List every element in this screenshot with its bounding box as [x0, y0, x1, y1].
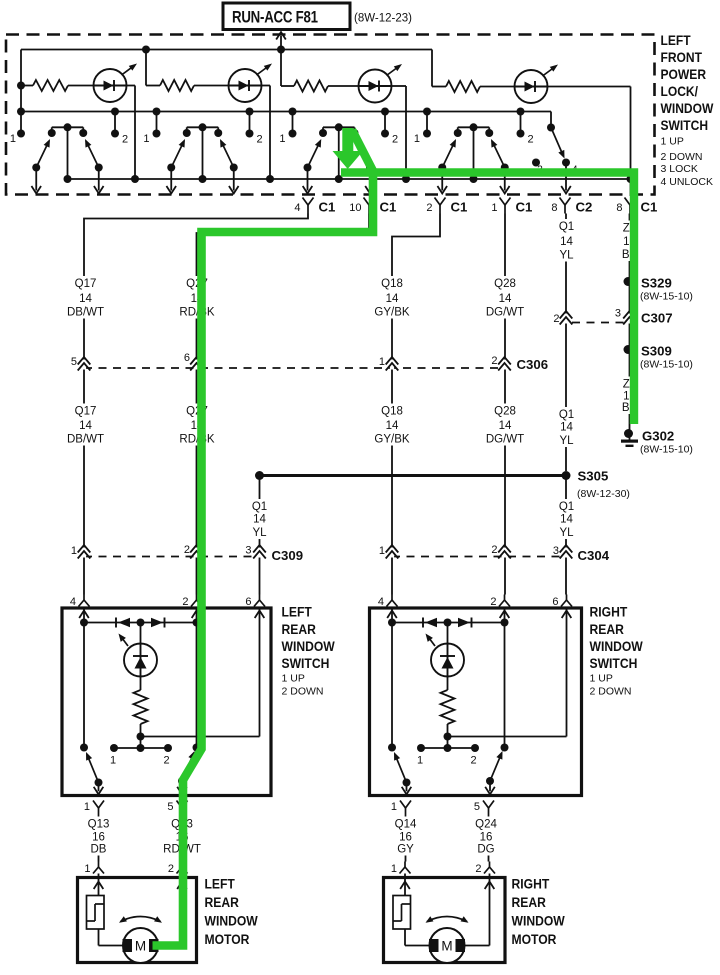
switch unit 4 left movable contact — [442, 141, 455, 168]
svg-text:2 DOWN: 2 DOWN — [282, 686, 324, 698]
label Z1 12 BK upper — [619, 221, 641, 262]
svg-text:WINDOW: WINDOW — [205, 913, 259, 929]
svg-text:WINDOW: WINDOW — [590, 638, 644, 654]
svg-text:4: 4 — [70, 596, 76, 608]
switch unit 2 right movable contact — [221, 141, 234, 168]
svg-text:2: 2 — [168, 863, 174, 875]
wire pin 6 to resistor — [259, 610, 261, 737]
motor pin 1 — [404, 862, 406, 868]
switch unit 3 contact bar — [323, 126, 355, 128]
right rear window motor box — [384, 878, 506, 963]
svg-text:6: 6 — [245, 596, 251, 608]
entry arrows — [391, 607, 393, 623]
motor pin 2 — [489, 862, 491, 868]
highlight path to left rear motor — [153, 130, 374, 946]
svg-text:C2: C2 — [576, 200, 593, 215]
svg-text:C309: C309 — [272, 548, 304, 563]
svg-text:LEFT: LEFT — [661, 32, 691, 48]
right rear window switch pin 2 — [504, 595, 506, 601]
wire Q17 from pin 4 C1 — [84, 214, 308, 595]
svg-text:2: 2 — [553, 313, 559, 325]
connector C309 pin 2 — [194, 548, 198, 558]
resistor illumination — [140, 677, 142, 691]
svg-text:14: 14 — [499, 420, 512, 432]
svg-text:(8W-12-23): (8W-12-23) — [354, 13, 412, 25]
svg-text:2: 2 — [528, 134, 534, 146]
wire Q1 from S305 left branch — [259, 476, 261, 595]
wire pin 6 to resistor — [566, 610, 568, 737]
svg-text:Q13: Q13 — [88, 819, 110, 831]
svg-text:SWITCH: SWITCH — [590, 655, 638, 671]
right rear window switch pin 6 — [566, 595, 568, 601]
pin 2 stub at x=385 — [384, 112, 386, 134]
svg-text:4 UNLOCK: 4 UNLOCK — [661, 176, 714, 188]
svg-text:RIGHT: RIGHT — [512, 876, 550, 892]
entry arrows — [83, 607, 85, 623]
svg-text:SWITCH: SWITCH — [282, 655, 330, 671]
right rear window switch pin 4 — [391, 595, 393, 601]
svg-text:RIGHT: RIGHT — [590, 604, 628, 620]
svg-text:C1: C1 — [516, 200, 533, 215]
lamp DS4 illumination — [515, 70, 548, 103]
svg-text:4: 4 — [294, 202, 300, 214]
connector C307 dashed line — [572, 322, 624, 324]
wire Q1 from pin 8 C2 — [565, 214, 567, 472]
label Q1 14 YL right branch — [554, 499, 580, 539]
resistor R4 illumination — [432, 86, 446, 88]
wire lamp DS4 return — [548, 86, 631, 88]
svg-text:Q1: Q1 — [559, 409, 574, 421]
svg-text:1 UP: 1 UP — [282, 673, 305, 685]
svg-text:3: 3 — [553, 545, 559, 557]
switch unit 4 common post — [473, 127, 475, 179]
switch unit 2 common post — [202, 127, 204, 179]
svg-text:M: M — [135, 939, 146, 954]
label Q23 16 RD/WT — [159, 817, 205, 856]
svg-text:1: 1 — [391, 863, 397, 875]
svg-text:M: M — [441, 939, 452, 954]
movable contact right (down) — [178, 777, 186, 785]
svg-text:14: 14 — [253, 514, 266, 526]
svg-text:REAR: REAR — [205, 894, 240, 910]
svg-text:DG/WT: DG/WT — [486, 434, 524, 446]
svg-text:LEFT: LEFT — [282, 604, 312, 620]
svg-text:1: 1 — [10, 133, 16, 145]
wire to lamp — [140, 623, 142, 644]
splice S309 — [624, 345, 633, 354]
svg-text:MOTOR: MOTOR — [205, 931, 251, 947]
wire Q23 — [181, 817, 183, 862]
wire Q13 — [98, 817, 100, 862]
wire feed drop unit2 — [145, 50, 147, 86]
svg-text:16: 16 — [480, 832, 493, 844]
pin 1 below right rear window — [400, 801, 406, 809]
svg-text:Q1: Q1 — [559, 221, 574, 233]
svg-text:YL: YL — [559, 435, 574, 447]
lamp illumination LED — [124, 644, 157, 677]
svg-text:14: 14 — [560, 236, 573, 248]
connector C306 pin 1 — [390, 360, 394, 370]
pin 1 stub at x=427 — [426, 112, 428, 134]
svg-text:2: 2 — [470, 755, 476, 767]
wire Q27 from pin 10 C1 — [197, 214, 370, 595]
label Q27 14 RD/BK — [177, 276, 217, 319]
svg-text:Q24: Q24 — [475, 819, 497, 831]
svg-text:1: 1 — [379, 545, 385, 557]
switch unit 4 right movable contact — [492, 141, 505, 168]
svg-text:1 UP: 1 UP — [661, 136, 684, 148]
junction feed unit2 — [142, 46, 150, 54]
svg-text:REAR: REAR — [590, 621, 625, 637]
resistor illumination — [447, 677, 449, 691]
svg-text:8: 8 — [616, 202, 622, 214]
connector pin 1 C1 of master switch — [500, 198, 506, 206]
junction unit 4 common on bus — [470, 175, 478, 183]
diode right (to pin 2) — [458, 618, 470, 627]
wire lamp DS3 return — [392, 85, 407, 87]
junction unit 2 common on bus — [199, 175, 207, 183]
switch unit 2 left movable contact — [171, 141, 184, 168]
wire pin 4 to up contact — [83, 623, 85, 748]
rotation arrow — [427, 917, 467, 922]
wire Z1 from pin 8 C1 to G302 — [629, 214, 631, 430]
svg-text:FRONT: FRONT — [661, 49, 703, 65]
diode left (to pin 4) — [115, 618, 117, 628]
switch unit 4 contact bar — [458, 126, 490, 128]
lamp DS3 illumination — [359, 70, 392, 103]
label Q13 16 DB — [78, 817, 120, 856]
svg-text:C1: C1 — [380, 200, 397, 215]
splice S305 bus — [260, 474, 567, 477]
wire pin 4 to up contact — [391, 623, 393, 748]
svg-text:Q28: Q28 — [494, 278, 516, 290]
highlight path to ground G302 — [341, 173, 634, 425]
switch unit 1 common post — [67, 127, 69, 179]
svg-text:2: 2 — [182, 596, 188, 608]
wire top internal — [84, 622, 197, 624]
svg-text:2 DOWN: 2 DOWN — [590, 686, 632, 698]
motor ground-side wire — [489, 874, 491, 946]
svg-text:3 LOCK: 3 LOCK — [661, 163, 698, 175]
svg-text:1: 1 — [414, 133, 420, 145]
wire Q18 from pin 2 C1 — [392, 214, 440, 595]
switch unit 3 left movable contact — [308, 141, 321, 168]
svg-text:WINDOW: WINDOW — [282, 638, 336, 654]
motor pin 2 — [181, 862, 183, 868]
lock/unlock switch arm — [551, 128, 563, 155]
svg-text:C307: C307 — [641, 311, 673, 326]
svg-text:2: 2 — [426, 202, 432, 214]
svg-text:DG/WT: DG/WT — [486, 307, 524, 319]
switch unit 3 right movable contact — [357, 141, 370, 168]
svg-text:MOTOR: MOTOR — [512, 931, 558, 947]
resistor R3 illumination — [281, 85, 294, 87]
svg-text:2: 2 — [392, 134, 398, 146]
svg-text:DB/WT: DB/WT — [67, 307, 104, 319]
junction feed fuse — [277, 46, 285, 54]
svg-text:8: 8 — [551, 202, 557, 214]
label Q1 14 YL upper — [554, 219, 580, 262]
connector pin 10 C1 of master switch — [364, 198, 370, 206]
svg-text:Q28: Q28 — [494, 406, 516, 418]
highlight start arrow — [342, 128, 353, 153]
contact positions bar — [140, 737, 142, 749]
motor ground-side wire — [181, 874, 183, 946]
right rear window switch box — [370, 608, 582, 796]
connector C307 pin 2 — [564, 314, 568, 324]
lamp illumination LED — [431, 644, 464, 677]
svg-text:10: 10 — [349, 202, 361, 214]
resistor R1 illumination — [21, 85, 33, 87]
connector pin 8 C1 of master switch — [625, 198, 631, 206]
wire Q24 — [488, 817, 490, 862]
left rear window switch pin 4 — [83, 595, 85, 601]
motor M — [123, 928, 158, 963]
svg-text:S329: S329 — [641, 276, 672, 291]
motor pin 1 — [98, 862, 100, 868]
left rear window switch pin 2 — [196, 595, 198, 601]
svg-text:WINDOW: WINDOW — [661, 100, 714, 116]
fuse box RUN-ACC F81 — [223, 3, 350, 30]
svg-text:2 DOWN: 2 DOWN — [661, 151, 703, 163]
connector C309 pin 3 — [257, 548, 261, 558]
connector C304 pin 3 — [564, 548, 568, 558]
junction unit 3 common on bus — [335, 175, 343, 183]
left rear window motor box — [78, 878, 197, 963]
junction unit 1 common on bus — [64, 175, 72, 183]
ground G302 — [624, 429, 633, 438]
splice S329 — [624, 277, 633, 286]
diode left (to pin 4) — [422, 618, 424, 628]
lamp DS2 illumination — [229, 69, 262, 102]
svg-text:2: 2 — [257, 134, 263, 146]
svg-text:SWITCH: SWITCH — [661, 117, 709, 133]
wire fuse feed to switch — [280, 36, 282, 50]
diode right (to pin 2) — [151, 618, 163, 627]
wire feed drop unit1 — [20, 50, 22, 134]
svg-text:2: 2 — [184, 544, 190, 556]
svg-text:2: 2 — [491, 355, 497, 367]
pin 1 unit1 — [17, 82, 25, 90]
wire Q1 from S305 to C304 — [565, 476, 567, 595]
svg-text:16: 16 — [399, 832, 412, 844]
svg-text:1: 1 — [71, 545, 77, 557]
resistor R2 illumination — [146, 85, 160, 87]
wire to lamp — [447, 623, 449, 644]
connector pin 4 C1 of master switch — [303, 198, 309, 206]
pin 1 stub at x=156.5 — [156, 112, 158, 134]
svg-text:C1: C1 — [451, 200, 468, 215]
svg-text:5: 5 — [71, 356, 77, 368]
svg-text:2: 2 — [490, 596, 496, 608]
svg-text:RD/BK: RD/BK — [179, 307, 214, 319]
junction lamp DS3 return on bus — [402, 175, 410, 183]
svg-text:1: 1 — [84, 863, 90, 875]
connector C307 pin 3 — [627, 314, 631, 324]
svg-text:5: 5 — [167, 801, 173, 813]
motor M — [430, 928, 465, 963]
wire lamp DS2 return — [262, 85, 271, 87]
switch unit 1 contact bar — [52, 126, 84, 128]
svg-text:C1: C1 — [641, 200, 658, 215]
wire switch pin bus — [21, 111, 551, 113]
rotation arrow — [121, 917, 161, 922]
svg-text:6: 6 — [184, 352, 190, 364]
svg-text:1: 1 — [110, 755, 116, 767]
svg-text:6: 6 — [552, 596, 558, 608]
wire feed drop unit4 — [431, 50, 433, 87]
wire pin 2 to down contact — [504, 623, 506, 748]
svg-text:DB/WT: DB/WT — [67, 434, 104, 446]
connector C306 dashed line — [84, 367, 505, 369]
left rear window switch pin 6 — [259, 595, 261, 601]
label Q18 14 GY/BK — [372, 276, 412, 319]
svg-text:4: 4 — [378, 596, 384, 608]
svg-text:14: 14 — [386, 293, 399, 305]
lock/unlock switch feed — [550, 112, 552, 128]
svg-text:Q14: Q14 — [395, 819, 417, 831]
svg-text:1: 1 — [84, 801, 90, 813]
svg-text:5: 5 — [474, 801, 480, 813]
svg-text:LEFT: LEFT — [205, 876, 235, 892]
svg-text:16: 16 — [92, 832, 105, 844]
wire Q28 from pin 1 C1 — [504, 214, 506, 595]
wire lamp return bus — [68, 178, 631, 180]
connector C304 dashed line — [392, 556, 566, 558]
wire top internal — [392, 622, 505, 624]
pin 1 stub at x=292.5 — [292, 112, 294, 134]
switch unit 1 left movable contact — [36, 141, 49, 168]
svg-text:2: 2 — [163, 755, 169, 767]
wire pin 2 to down contact — [196, 623, 198, 748]
label Q18 14 GY/BK lower — [372, 404, 412, 446]
connector C306 pin 5 — [82, 360, 86, 370]
wire Q14 — [405, 817, 407, 862]
svg-text:DG: DG — [477, 844, 494, 856]
svg-text:2: 2 — [122, 134, 128, 146]
svg-text:Q17: Q17 — [75, 406, 97, 418]
svg-text:YL: YL — [559, 527, 574, 539]
left rear window switch box — [62, 608, 271, 796]
switch unit 3 common post — [338, 127, 340, 179]
svg-text:C304: C304 — [578, 548, 610, 563]
svg-text:LOCK/: LOCK/ — [661, 83, 699, 99]
label Q27 14 RD/BK lower — [177, 404, 217, 446]
motor feed wire w/ circuit breaker — [404, 874, 406, 896]
wire bus to ground pin 8 C1 — [630, 179, 632, 196]
svg-text:14: 14 — [386, 420, 399, 432]
svg-text:(8W-15-10): (8W-15-10) — [640, 444, 693, 456]
switch unit 1 right movable contact — [86, 141, 99, 168]
svg-text:(8W-15-10): (8W-15-10) — [640, 359, 693, 371]
motor feed wire w/ circuit breaker — [98, 874, 100, 896]
svg-text:1: 1 — [143, 133, 149, 145]
connector C304 pin 2 — [502, 548, 506, 558]
svg-text:14: 14 — [560, 422, 573, 434]
svg-text:3: 3 — [245, 545, 251, 557]
svg-text:C1: C1 — [319, 200, 336, 215]
svg-text:1: 1 — [279, 133, 285, 145]
svg-text:1: 1 — [391, 801, 397, 813]
svg-text:2: 2 — [475, 863, 481, 875]
left front power lock/window switch dashed box — [6, 35, 655, 195]
svg-text:2: 2 — [491, 544, 497, 556]
svg-text:RD/BK: RD/BK — [179, 434, 214, 446]
svg-text:Q18: Q18 — [381, 278, 403, 290]
junction lamp DS2 return on bus — [266, 175, 274, 183]
svg-text:S309: S309 — [641, 344, 672, 359]
svg-text:POWER: POWER — [661, 66, 707, 82]
svg-text:GY/BK: GY/BK — [374, 307, 409, 319]
svg-text:GY/BK: GY/BK — [374, 434, 409, 446]
svg-text:1: 1 — [379, 356, 385, 368]
svg-text:14: 14 — [79, 293, 92, 305]
svg-text:REAR: REAR — [512, 894, 547, 910]
label Z1 12 BK lower — [619, 377, 641, 415]
connector C309 pin 1 — [82, 548, 86, 558]
svg-text:(8W-12-30): (8W-12-30) — [577, 488, 630, 500]
connector C309 dashed line — [84, 556, 260, 558]
connector pin 8 C2 of master switch — [560, 198, 566, 206]
svg-text:Q18: Q18 — [381, 406, 403, 418]
svg-text:G302: G302 — [642, 429, 674, 444]
svg-text:1 UP: 1 UP — [590, 673, 613, 685]
svg-text:DB: DB — [91, 844, 107, 856]
lock contact pin 3 — [532, 159, 540, 167]
junction lamp DS4 return on bus — [627, 175, 635, 183]
movable contact left (up) — [403, 779, 411, 787]
svg-text:Q1: Q1 — [559, 501, 574, 513]
contact positions bar — [447, 737, 449, 749]
pin 5 below left rear window — [177, 801, 183, 809]
connector C306 pin 2 — [502, 360, 506, 370]
switch unit 2 contact bar — [187, 126, 219, 128]
label Q17 14 DB/WT lower — [66, 404, 106, 446]
wire lamp DS1 return — [127, 85, 136, 87]
unlock contact pin 4 — [562, 159, 570, 167]
svg-text:RUN-ACC F81: RUN-ACC F81 — [232, 8, 318, 27]
svg-text:REAR: REAR — [282, 621, 317, 637]
svg-text:YL: YL — [559, 250, 574, 262]
svg-text:S305: S305 — [578, 469, 609, 484]
pin 5 below right rear window — [483, 801, 489, 809]
connector C304 pin 1 — [390, 548, 394, 558]
label Q1 14 YL lower — [554, 407, 580, 447]
pin 2 stub at x=115 — [114, 112, 116, 134]
svg-text:1: 1 — [417, 755, 423, 767]
lamp DS1 illumination — [94, 69, 127, 102]
svg-text:GY: GY — [397, 844, 414, 856]
pin 2 stub at x=249.5 — [249, 112, 251, 134]
label Q1 14 YL left branch — [247, 499, 273, 539]
label Q28 14 DG/WT — [485, 276, 525, 319]
svg-text:YL: YL — [252, 527, 267, 539]
svg-text:WINDOW: WINDOW — [512, 913, 566, 929]
svg-text:14: 14 — [79, 420, 92, 432]
pin 2 stub at x=520.5 — [520, 112, 522, 134]
wire unlock pivot to pin 8 C2 — [565, 163, 567, 191]
svg-text:3: 3 — [615, 308, 621, 320]
connector pin 2 C1 of master switch — [435, 198, 441, 206]
movable contact left (up) — [95, 779, 103, 787]
label Q24 16 DG — [463, 817, 509, 856]
svg-text:Q17: Q17 — [75, 278, 97, 290]
svg-text:14: 14 — [499, 293, 512, 305]
svg-text:1: 1 — [491, 202, 497, 214]
wire feed drop unit3 from fuse — [280, 50, 282, 87]
pin 1 below left rear window — [93, 801, 99, 809]
connector C306 pin 6 — [194, 360, 198, 370]
